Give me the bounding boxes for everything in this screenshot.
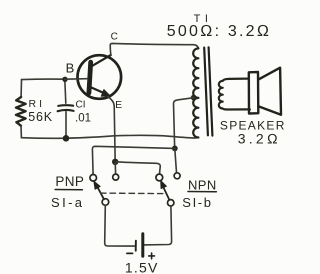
- wire emitter dot to contact A2: [114, 162, 116, 174]
- transistor Q1 base bar: [89, 62, 91, 93]
- transistor Q1 emitter arrowhead: [101, 90, 110, 97]
- transformer T1 secondary coil: [219, 79, 250, 110]
- wire emitter dot to contact B1: [115, 162, 160, 174]
- wire pole-b to battery plus: [143, 206, 172, 245]
- wire base B to left rail top: [22, 78, 65, 81]
- svg-text:B: B: [66, 61, 75, 76]
- transformer T1 core line right: [209, 47, 213, 135]
- switch S1-b arrowhead: [161, 181, 167, 189]
- transformer T1 primary coil: [193, 48, 198, 137]
- transistor Q1 base lead: [65, 78, 88, 81]
- svg-text:E: E: [115, 99, 122, 111]
- label NPN underline: [188, 191, 216, 193]
- wire C1 top lead: [65, 79, 66, 103]
- wire junction to contact B2: [175, 148, 177, 172]
- battery B1 long plate: [141, 234, 144, 257]
- node rail-C1 junction dot: [63, 135, 70, 142]
- wire tap to switch vertical: [173, 98, 193, 149]
- svg-text:PNP: PNP: [55, 174, 84, 189]
- svg-text:CI: CI: [76, 99, 86, 110]
- wire R1 top lead: [20, 80, 22, 97]
- svg-text:56K: 56K: [28, 110, 53, 124]
- switch S1-b arm: [163, 187, 169, 200]
- svg-text:3.2Ω: 3.2Ω: [238, 130, 281, 146]
- transistor Q1 collector line: [91, 55, 111, 67]
- resistor R1: [16, 97, 26, 126]
- svg-text:SI-b: SI-b: [182, 195, 212, 210]
- transistor Q1 emitter line: [90, 87, 105, 93]
- svg-text:RI: RI: [29, 98, 46, 110]
- capacitor C1: [58, 105, 74, 111]
- switch S1-a arrowhead: [94, 181, 100, 189]
- svg-text:SI-a: SI-a: [51, 195, 84, 210]
- transformer T1 core line left: [204, 48, 208, 136]
- wire junction to contact A1: [92, 146, 174, 174]
- svg-text:NPN: NPN: [188, 177, 217, 192]
- switch S1-b contact B2: [174, 173, 180, 179]
- wire pole-a to battery minus: [105, 205, 135, 246]
- battery plus sign: [149, 253, 155, 259]
- wire bottom rail: [21, 135, 198, 138]
- switch S1-a pole: [102, 199, 109, 206]
- svg-text:500Ω: 3.2Ω: 500Ω: 3.2Ω: [167, 23, 271, 40]
- transistor Q1 circle: [78, 55, 122, 99]
- wire R1 bottom lead: [20, 126, 22, 138]
- switch S1-b contact B1: [156, 174, 163, 181]
- switch S1-a contact A2: [113, 174, 119, 180]
- switch S1-a contact A1: [90, 175, 97, 182]
- svg-text:1.5V: 1.5V: [125, 260, 159, 274]
- battery B1 short plate: [135, 241, 137, 251]
- wire C1 bottom lead: [65, 112, 67, 139]
- svg-text:.01: .01: [75, 113, 91, 125]
- switch S1-b pole: [168, 200, 174, 206]
- switch mechanical link dashed: [101, 192, 163, 195]
- battery minus sign: [127, 252, 133, 254]
- node transformer tap junction dot: [191, 95, 197, 101]
- speaker driver rectangle: [249, 72, 258, 114]
- label PNP underline: [55, 189, 82, 191]
- node B junction dot: [62, 77, 67, 82]
- svg-text:C: C: [111, 32, 118, 43]
- wire emitter down: [108, 97, 115, 162]
- switch S1-a arm: [97, 187, 104, 200]
- node switch junction dot: [172, 146, 178, 152]
- wire collector to transformer primary top: [110, 43, 198, 55]
- node emitter junction dot: [112, 159, 118, 165]
- speaker cone: [258, 68, 281, 115]
